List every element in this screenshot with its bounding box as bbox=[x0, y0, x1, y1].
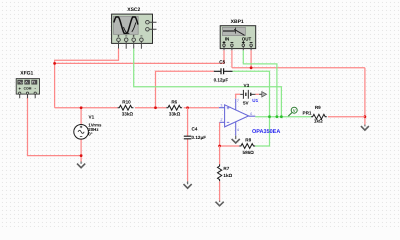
ground under R7 bbox=[219, 201, 221, 202]
wire V1 top riser bbox=[80, 108, 82, 125]
resistor R10 bbox=[118, 105, 134, 110]
wire V3 left bbox=[236, 94, 241, 99]
svg-text:XFG1: XFG1 bbox=[20, 71, 33, 77]
ground arrow right of V3 bbox=[259, 93, 262, 95]
svg-text:0.12μF: 0.12μF bbox=[214, 78, 229, 83]
svg-text:C5: C5 bbox=[219, 60, 225, 65]
svg-text:5V: 5V bbox=[243, 101, 250, 106]
node OUT- junction bbox=[250, 66, 253, 69]
wire C4 riser bbox=[187, 108, 189, 182]
node junction input riser bbox=[53, 62, 56, 65]
node output junction 1 bbox=[268, 115, 271, 118]
resistor R6 bbox=[166, 105, 182, 110]
wire node A riser to C5 bbox=[156, 71, 214, 107]
svg-text:U1: U1 bbox=[252, 98, 258, 103]
ground under V1 bbox=[80, 162, 82, 164]
capacitor C4 bbox=[184, 136, 192, 139]
wire XSC2 channel B green bbox=[134, 48, 282, 116]
resistor R7 bbox=[218, 164, 222, 181]
svg-text:3: 3 bbox=[220, 104, 222, 108]
ground under C4 bbox=[187, 181, 189, 184]
svg-text:586Ω: 586Ω bbox=[243, 150, 255, 155]
wire V3 right red segment bbox=[255, 93, 259, 95]
svg-text:1kΩ: 1kΩ bbox=[223, 173, 232, 178]
node right ground junction bbox=[364, 115, 367, 118]
bode plotter XBP1 bbox=[220, 26, 256, 51]
svg-text:0.12μF: 0.12μF bbox=[192, 135, 207, 140]
wire R8 right feedback green bbox=[255, 117, 270, 146]
V1 labels bbox=[88, 115, 102, 137]
wire op-amp pin2 down to R8 R7 node bbox=[220, 122, 240, 146]
svg-text:R8: R8 bbox=[245, 137, 251, 142]
wire C5 right to output green bbox=[233, 71, 270, 116]
node V1 bottom junction bbox=[80, 154, 83, 157]
svg-text:PR1: PR1 bbox=[303, 111, 312, 116]
wire V1 bottom bbox=[80, 139, 82, 162]
wire XBP1 IN+ to input bus bbox=[55, 50, 224, 63]
svg-text:XBP1: XBP1 bbox=[231, 19, 244, 25]
AC source V1 bbox=[74, 125, 89, 140]
function generator XFG1 bbox=[16, 79, 39, 99]
op-amp pin numbers bbox=[220, 99, 252, 132]
svg-text:V3: V3 bbox=[244, 83, 250, 88]
svg-text:OUT: OUT bbox=[242, 36, 252, 41]
resistor R8 bbox=[239, 144, 255, 149]
node V1 top junction bbox=[80, 106, 83, 109]
svg-text:COM: COM bbox=[24, 87, 32, 91]
svg-text:R10: R10 bbox=[122, 99, 131, 104]
wire output line green bbox=[255, 116, 311, 118]
svg-text:V: V bbox=[293, 108, 296, 113]
svg-text:7: 7 bbox=[237, 99, 239, 103]
svg-text:1kΩ: 1kΩ bbox=[314, 119, 323, 124]
svg-text:33kΩ: 33kΩ bbox=[122, 112, 134, 117]
resistor R9 bbox=[311, 114, 327, 119]
svg-text:R9: R9 bbox=[315, 105, 321, 110]
node output junction 3 bbox=[280, 115, 283, 118]
op-amp input polarity marks bbox=[227, 107, 230, 123]
op-amp U1 bbox=[219, 99, 255, 136]
capacitor C5 bbox=[214, 68, 233, 74]
node R8 R7 junction bbox=[218, 145, 221, 148]
svg-text:XSC2: XSC2 bbox=[127, 7, 140, 13]
svg-text:V1: V1 bbox=[89, 115, 95, 120]
svg-text:2: 2 bbox=[220, 118, 222, 122]
node A junction bbox=[154, 106, 157, 109]
ground under op-amp pin4 bbox=[235, 136, 237, 139]
svg-text:C4: C4 bbox=[192, 126, 198, 131]
svg-text:R6: R6 bbox=[171, 99, 177, 104]
svg-text:6: 6 bbox=[250, 112, 252, 116]
svg-text:0°: 0° bbox=[88, 132, 92, 137]
wire XBP1 OUT+ green bbox=[243, 50, 277, 116]
wire R9 right to ground bbox=[328, 116, 365, 118]
node output junction 2 bbox=[276, 115, 279, 118]
node B junction bbox=[186, 106, 189, 109]
svg-text:R7: R7 bbox=[223, 166, 229, 171]
svg-text:33kΩ: 33kΩ bbox=[169, 112, 181, 117]
svg-text:OPA350EA: OPA350EA bbox=[252, 129, 280, 135]
battery V3 bbox=[240, 90, 255, 99]
wire XSC2 channel A to input bus bbox=[55, 48, 119, 107]
wire R7 leads bbox=[219, 146, 221, 201]
wire XFG1 COM to V1 bottom bbox=[28, 95, 82, 156]
wire XBP1 IN- OUT- ground line bbox=[232, 50, 365, 125]
svg-text:4: 4 bbox=[237, 128, 239, 132]
probe PR1 bbox=[288, 107, 297, 116]
oscilloscope XSC2 bbox=[112, 14, 157, 49]
svg-text:IN: IN bbox=[225, 36, 230, 41]
ground right side bbox=[364, 125, 366, 127]
wire main input bus bbox=[55, 107, 219, 109]
